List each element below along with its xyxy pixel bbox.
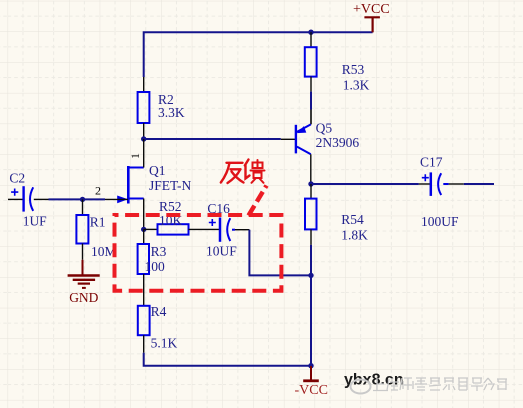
反	[227, 162, 243, 164]
label 反馈 (feedback) drawn strokes	[221, 160, 265, 184]
resistor R54	[310, 184, 312, 199]
transistor Q1 JFET-N	[128, 166, 143, 204]
wire C16 to output node	[249, 230, 311, 276]
svg-text:R1: R1	[90, 215, 106, 230]
svg-text:C2: C2	[9, 171, 25, 186]
node junction C16-path/R54	[308, 273, 313, 278]
capacitor C17	[422, 172, 449, 196]
svg-text:+VCC: +VCC	[353, 2, 390, 17]
capacitor C2	[8, 198, 24, 200]
transistor Q5 2N3906	[296, 124, 311, 154]
ground GND	[68, 260, 100, 288]
resistor R1	[82, 199, 84, 215]
pin Q5 base	[281, 138, 295, 140]
wire top rail VCC net	[144, 32, 373, 77]
node output junction	[308, 181, 313, 186]
svg-text:R54: R54	[341, 212, 364, 227]
resistor R4	[138, 306, 150, 335]
watermark logo ellipse	[351, 380, 371, 394]
svg-text:2: 2	[95, 184, 101, 198]
svg-text:1: 1	[128, 153, 142, 159]
feedback highlight box (red dashed)	[115, 215, 282, 291]
wire base net	[144, 138, 281, 140]
power -VCC symbol	[303, 366, 319, 381]
pin Q1 source	[143, 199, 145, 230]
wire bottom rail -VCC net	[144, 353, 311, 366]
wire input net node 2	[49, 198, 106, 200]
feedback leader line	[249, 186, 267, 216]
svg-text:1UF: 1UF	[23, 214, 47, 229]
watermark company name glyph blocks	[373, 378, 507, 391]
svg-text:R4: R4	[151, 304, 167, 319]
svg-text:1.3K: 1.3K	[343, 77, 370, 92]
node 2 junction	[80, 197, 85, 202]
svg-text:3.3K: 3.3K	[158, 105, 185, 120]
node junction source/R52/R3	[141, 227, 146, 232]
wire R53 to Q5 emitter	[310, 92, 312, 110]
pin C16 right	[235, 229, 249, 231]
capacitor C16	[209, 218, 235, 242]
pin C17 right	[449, 183, 464, 185]
svg-text:100UF: 100UF	[421, 214, 459, 229]
resistor R3	[143, 229, 145, 244]
svg-text:5.1K: 5.1K	[151, 336, 178, 351]
pin Q1 gate	[105, 198, 128, 200]
resistor R2	[143, 77, 145, 92]
wire output net	[311, 183, 419, 185]
svg-text:10UF: 10UF	[206, 243, 237, 258]
node junction R2/base	[141, 136, 146, 141]
svg-text:JFET-N: JFET-N	[149, 178, 192, 193]
svg-text:GND: GND	[69, 290, 98, 305]
pin Q1 drain	[143, 139, 145, 168]
svg-text:Q1: Q1	[149, 163, 166, 178]
svg-text:R53: R53	[342, 62, 365, 77]
svg-text:100: 100	[145, 259, 166, 274]
resistor R53	[310, 32, 312, 47]
svg-text:2N3906: 2N3906	[316, 135, 360, 150]
wire R54 to -VCC rail	[310, 245, 312, 366]
svg-text:Q5: Q5	[316, 120, 333, 135]
svg-text:1.8K: 1.8K	[341, 228, 368, 243]
resistor R52	[144, 228, 158, 230]
svg-text:R3: R3	[151, 244, 167, 259]
svg-text:C17: C17	[420, 154, 443, 169]
馈	[245, 160, 249, 166]
pin Q5 emitter	[310, 110, 312, 125]
pin Q5 collector	[310, 154, 312, 184]
svg-text:-VCC: -VCC	[295, 383, 328, 398]
node junction bottom rail	[308, 363, 313, 368]
power +VCC symbol	[364, 17, 380, 32]
wire output right segment	[464, 183, 494, 185]
node junction top rail/R53	[308, 30, 313, 35]
